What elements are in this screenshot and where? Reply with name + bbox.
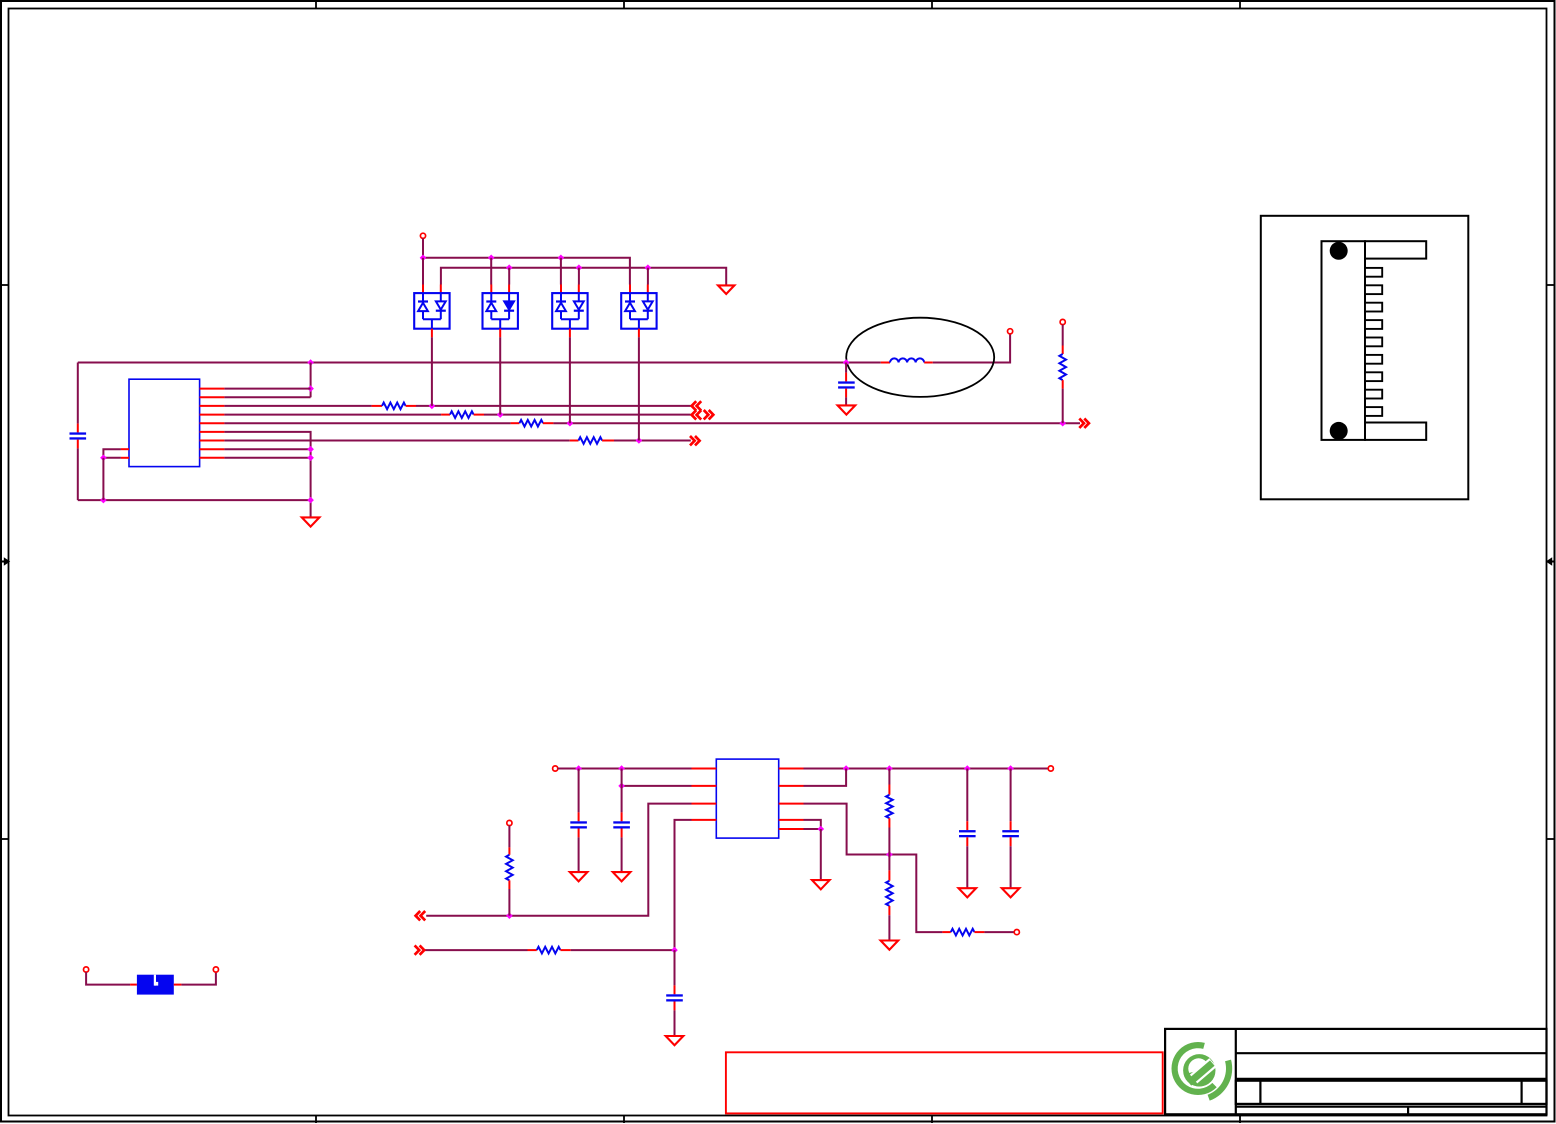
wire C2 lead xyxy=(845,363,847,373)
junction rowB C5 xyxy=(671,947,678,954)
port rowB chevron-right xyxy=(415,945,425,954)
wire row4 right xyxy=(614,440,691,442)
junction rail2 C6 xyxy=(964,765,971,772)
ground diode rail xyxy=(718,285,734,294)
port R10 right xyxy=(1014,930,1019,935)
junction pin9 right xyxy=(307,455,314,462)
wire U1 pin1 xyxy=(224,388,310,390)
wire row3 right xyxy=(553,422,1080,424)
ground under C5 xyxy=(666,1036,684,1045)
capacitor C2 xyxy=(845,373,847,382)
junction top rail / vertical xyxy=(307,359,314,366)
wire row1 right xyxy=(416,405,691,407)
wire W1 to D2 left pin xyxy=(490,258,492,285)
junction W1 D2 xyxy=(488,255,495,262)
resistor R1 xyxy=(372,405,382,407)
wire row1 left xyxy=(224,405,371,407)
wire D2 to row2 xyxy=(499,337,501,414)
junction W2 D4 xyxy=(645,264,652,271)
wire U2 pinL3 xyxy=(426,804,691,916)
capacitor C6 xyxy=(966,769,968,822)
diode D1 xyxy=(422,285,424,294)
wire U2 pinR4 xyxy=(804,820,821,829)
wire rail to pin2 xyxy=(310,363,312,398)
wire rail2 left xyxy=(558,768,692,770)
junction row3 / D3 xyxy=(567,420,574,427)
junction bottom rail / ground column xyxy=(307,497,314,504)
diode D3 xyxy=(560,285,562,294)
wire left vertical bottom xyxy=(77,448,79,500)
wire U2 pinR5 xyxy=(804,828,821,830)
port rail2 right xyxy=(1048,766,1053,771)
wire fuse right xyxy=(181,972,216,985)
port R5 top xyxy=(1060,319,1065,324)
wire rail2 right xyxy=(804,768,1049,770)
wire C5 top xyxy=(674,950,676,985)
capacitor C1 xyxy=(77,424,79,433)
wire left vertical top xyxy=(77,363,79,424)
fuse F1 xyxy=(130,984,137,986)
port row2 chevron-left xyxy=(692,410,702,419)
wire D3 to row3 xyxy=(569,337,571,423)
junction rail2 C3 xyxy=(575,765,582,772)
wire W1 to D3 left pin xyxy=(560,258,562,285)
ground U2 right pins xyxy=(812,880,830,889)
junction rowA R6 xyxy=(506,912,513,919)
wire U1 left pin8 xyxy=(103,449,121,458)
resistor R3 xyxy=(511,422,520,424)
ground under C2 xyxy=(838,405,856,414)
wire P1 down xyxy=(422,238,424,257)
junction left pins xyxy=(100,455,107,462)
wire rowB left xyxy=(424,949,528,951)
wire top rail right segment xyxy=(933,334,1010,363)
junction row1 / D1 xyxy=(429,403,436,410)
junction W2 D2 xyxy=(506,264,513,271)
port P1 top xyxy=(420,233,425,238)
wire bottom rail xyxy=(78,499,311,501)
port row2 chevron-right xyxy=(704,410,714,419)
wire U1 pin8 right xyxy=(224,448,310,450)
junction rail2 C7 xyxy=(1007,765,1014,772)
wire row2 right xyxy=(484,414,691,416)
capacitor C7 xyxy=(1010,769,1012,822)
wire row4 left xyxy=(224,440,569,442)
junction row4 / D4 xyxy=(636,437,643,444)
port fuse left xyxy=(84,967,89,972)
ground under C3 xyxy=(570,872,588,881)
junction R8 chain mid xyxy=(886,851,893,858)
wire R10 to port xyxy=(984,931,1014,933)
wire U1 pin6 to ground column xyxy=(224,432,310,517)
IC U2 xyxy=(716,759,778,838)
junction C4 pinL2 xyxy=(618,783,625,790)
resistor R4 xyxy=(570,440,579,442)
diode D4 xyxy=(629,285,631,294)
wire U2 pinR3 xyxy=(804,804,943,933)
wire rowB right xyxy=(571,949,675,951)
resistor R7 xyxy=(528,949,537,951)
capacitor C3 xyxy=(578,769,580,813)
junction rail2 R2corner xyxy=(843,765,850,772)
junction pinR4R5 xyxy=(818,826,825,833)
wire W2 to D4 right pin xyxy=(647,268,649,285)
wire U2 pinL2 xyxy=(622,785,692,787)
resistor R6 xyxy=(507,820,512,825)
junction pin8 right xyxy=(307,446,314,453)
junction bottom rail / left pins xyxy=(100,497,107,504)
wire C5 to ground xyxy=(674,1010,676,1036)
ground under C7 xyxy=(1002,888,1020,897)
connector J1 drawing xyxy=(1261,216,1469,500)
wire U2 pinR2 xyxy=(804,769,847,786)
resistor R5 xyxy=(1062,325,1064,346)
wire U1 pin9 right xyxy=(224,457,310,459)
capacitor C5 xyxy=(674,985,676,994)
wire D1 to row1 xyxy=(431,337,433,406)
IC U1 xyxy=(129,379,200,466)
wire pinR45 to ground xyxy=(820,829,822,880)
diode D2 xyxy=(490,285,492,294)
wire diode top rail 2 xyxy=(441,268,726,286)
resistor R2 xyxy=(441,414,450,416)
junction top rail / C2 xyxy=(843,359,850,366)
wire top rail xyxy=(78,362,881,364)
junction row3 / R5 xyxy=(1059,420,1066,427)
ground under U1 column xyxy=(302,517,320,526)
inductor L1 xyxy=(881,362,890,364)
port row3 chevron-right xyxy=(1079,419,1089,428)
wire diode top rail 1 xyxy=(423,258,630,285)
wire left pins to bottom rail xyxy=(102,458,104,500)
ground under R9 xyxy=(881,941,899,950)
red annotation rectangle xyxy=(726,1052,1163,1113)
wire fuse left xyxy=(86,972,130,985)
wire W2 to D3 right pin xyxy=(578,268,580,285)
wire row2 left xyxy=(224,414,441,416)
port rowA chevron-left xyxy=(416,911,426,920)
junction W1 D1 xyxy=(420,255,427,262)
wire W2 to D2 right pin xyxy=(508,268,510,285)
resistor R8 xyxy=(888,769,890,785)
port rail2 left xyxy=(553,766,558,771)
junction pin1 xyxy=(307,385,314,392)
wire W1 to D1 left pin xyxy=(422,258,424,285)
resistor R10 xyxy=(942,931,950,933)
junction row2 / D2 xyxy=(497,411,504,418)
wire C2 to ground xyxy=(845,397,847,405)
wire row3 left xyxy=(224,422,510,424)
ground under C4 xyxy=(613,872,631,881)
capacitor C4 xyxy=(621,769,623,813)
port fuse right xyxy=(213,967,218,972)
junction rail2 C4 xyxy=(618,765,625,772)
junction W1 D3 xyxy=(558,255,565,262)
resistor R9 xyxy=(888,855,890,871)
ground under C6 xyxy=(959,888,977,897)
ellipse annotation around L1 xyxy=(846,318,994,397)
junction rail2 R8 xyxy=(886,765,893,772)
port row4 chevron-right xyxy=(690,436,700,445)
wire U1 left pin9 xyxy=(103,457,121,459)
junction W2 D3 xyxy=(576,264,583,271)
wire U1 pin2 xyxy=(224,396,310,398)
wire D4 to row4 xyxy=(638,337,640,440)
wire U2 pinL4 xyxy=(675,820,692,950)
title block xyxy=(1165,1029,1546,1114)
EasyEDA logo xyxy=(1172,1042,1217,1095)
port row1 chevron-left xyxy=(692,401,702,410)
port VCC top-right of ellipse xyxy=(1008,329,1013,334)
